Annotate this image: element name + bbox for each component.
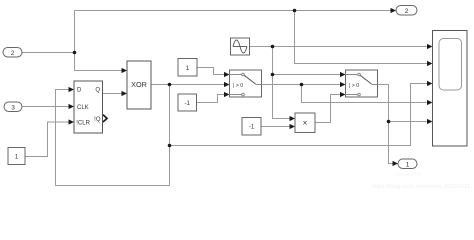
wire Q to XOR in2: [103, 93, 123, 95]
product block: [295, 113, 315, 133]
node XOR feedback branch: [168, 144, 172, 148]
constant 1: [178, 59, 197, 77]
wire const 1 to switch1 in1: [197, 68, 225, 75]
switch 2: [346, 70, 378, 97]
arrow switch2 in2: [340, 82, 346, 87]
arrow switch1 in1: [224, 72, 230, 77]
scope: [433, 31, 468, 147]
wire switch2 branch to scope in5: [389, 121, 429, 123]
wire inport3 to CLK: [22, 106, 70, 108]
arrow XOR in1: [122, 68, 128, 73]
arrowheads: [69, 8, 433, 166]
svg-text:https://blog.csdn.net/weixin_4: https://blog.csdn.net/weixin_45530611: [372, 184, 470, 190]
arrow scope in4: [427, 100, 433, 105]
constant -1: [178, 94, 197, 111]
switch 1: [230, 70, 262, 97]
arrow switch2 in3: [340, 92, 346, 97]
node XOR out branch: [168, 83, 172, 87]
arrow product in2: [290, 124, 296, 129]
node switch2 out branch: [387, 120, 391, 124]
svg-text:!CLR: !CLR: [76, 120, 90, 126]
wire sine branch down: [273, 47, 291, 119]
wire XOR out to switch1 control: [151, 84, 225, 86]
wire inport2 down to scope in2: [295, 11, 429, 64]
arrow outport1: [393, 161, 399, 166]
arrow scope in3: [427, 81, 433, 86]
arrow scope in2: [427, 61, 433, 66]
wire XOR branch to scope in3: [170, 84, 429, 146]
svg-text:3: 3: [11, 105, 15, 112]
wire feedback to D: [56, 85, 170, 186]
arrow D: [69, 87, 75, 92]
wire switch1 branch to scope in4: [302, 85, 429, 103]
svg-text:2: 2: [405, 8, 409, 15]
wire sine to scope in1: [250, 46, 428, 48]
arrow outport2: [391, 8, 397, 13]
wire switch1 out to switch2 control: [262, 84, 342, 86]
node switch1 out branch: [300, 83, 304, 87]
XOR gate block: [127, 61, 151, 109]
wire const -1 to switch1 in3: [197, 95, 226, 103]
arrow switch2 in1: [340, 72, 346, 77]
inport 2: [3, 48, 22, 58]
outport 1: [398, 159, 417, 169]
svg-text:Q: Q: [95, 88, 100, 94]
svg-text:1: 1: [186, 65, 190, 72]
unconnected output marker: [103, 115, 107, 122]
svg-text:!Q: !Q: [94, 117, 101, 123]
constant -1 b: [242, 118, 261, 136]
wire top to outport2: [75, 10, 392, 12]
arrow CLR: [69, 119, 75, 124]
constant 1 (bottom left): [8, 148, 25, 165]
svg-text:2: 2: [11, 50, 15, 57]
svg-text:CSDN @Qiii: CSDN @Qiii: [396, 172, 421, 177]
arrow switch1 in3: [224, 92, 230, 97]
svg-text:CLK: CLK: [77, 105, 89, 111]
inport 3: [4, 102, 22, 112]
node sine branch: [271, 45, 275, 49]
wire const1 to CLR: [25, 122, 70, 157]
node inport2 branch: [73, 51, 77, 55]
arrow switch1 in2: [224, 82, 230, 87]
wire sine branch to switch2 in1: [273, 74, 342, 76]
svg-text:×: ×: [303, 118, 308, 127]
arrow scope in1: [427, 44, 433, 49]
wire to XOR in1: [75, 70, 123, 72]
svg-text:D: D: [77, 88, 82, 94]
wire inport2 to junction: [22, 52, 75, 54]
wire vertical inport2 branch: [74, 11, 76, 71]
wire const -1b to product in2: [261, 126, 291, 128]
arrow scope in5: [427, 119, 433, 124]
svg-text:XOR: XOR: [131, 80, 147, 89]
svg-text:-1: -1: [185, 101, 191, 107]
svg-text:1: 1: [406, 162, 410, 169]
wire switch2 out down: [378, 85, 394, 164]
arrow CLK: [69, 104, 75, 109]
node sine switch2 branch: [271, 73, 275, 77]
svg-text:| > 0: | > 0: [233, 83, 243, 89]
D flip-flop U1: [74, 81, 107, 133]
wire product out to switch2 in3: [315, 95, 341, 123]
outport 2: [396, 6, 417, 16]
node top wire branch: [293, 9, 297, 13]
sine wave source: [231, 38, 250, 55]
arrow XOR in2: [122, 91, 128, 96]
svg-text:-1: -1: [249, 125, 255, 131]
arrow product in1: [290, 116, 296, 121]
svg-text:| > 0: | > 0: [349, 83, 359, 89]
